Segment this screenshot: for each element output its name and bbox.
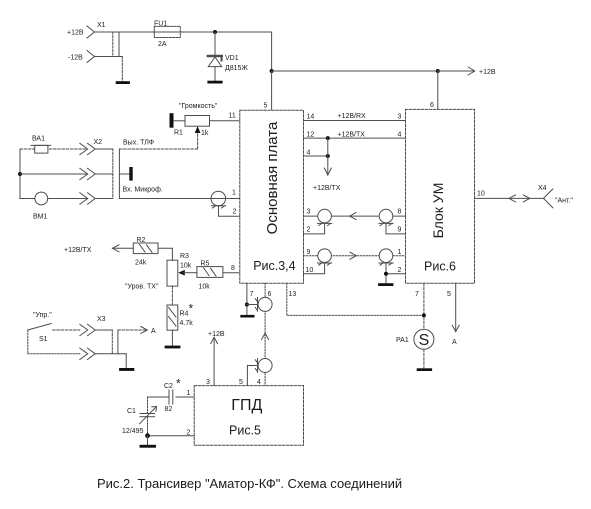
ground VD1: [207, 81, 222, 84]
svg-text:*: *: [176, 377, 181, 391]
svg-text:9: 9: [307, 249, 311, 256]
speaker BA1: [20, 136, 87, 154]
svg-text:12: 12: [307, 131, 315, 138]
wire coax shield to pin2: [219, 206, 240, 217]
svg-text:4: 4: [398, 131, 402, 138]
svg-text:+12В: +12В: [67, 30, 84, 37]
wire pin14 to pin3 +12V/RX: [304, 120, 406, 122]
wire pin6 drop: [437, 71, 439, 109]
wire TLF dashed to R1 wiper: [119, 148, 197, 150]
connector X1: [67, 22, 130, 84]
svg-text:2: 2: [187, 429, 191, 436]
wire R1 to pin 11: [210, 120, 240, 122]
double arrow: [509, 195, 516, 202]
arrow up: [262, 333, 269, 339]
svg-text:1: 1: [232, 190, 236, 197]
wire pin13: [287, 283, 424, 315]
wire pin12 to pin4 +12V/TX: [304, 137, 406, 139]
svg-text:5: 5: [264, 103, 268, 110]
wire shield row: [20, 173, 87, 175]
svg-text:6: 6: [430, 102, 434, 109]
X1 pin chevron -12V: [87, 51, 95, 63]
wire X3 to A arrow: [118, 329, 147, 331]
node C1: [145, 433, 150, 438]
svg-text:12/495: 12/495: [122, 428, 144, 435]
coax jack left lower: [304, 249, 332, 274]
connector X4: [538, 185, 573, 208]
coax jack left: [304, 209, 332, 234]
wire pin3 GPD +12V arrow: [213, 337, 215, 385]
arrow right: [350, 252, 356, 259]
svg-text:ВА1: ВА1: [32, 136, 45, 143]
svg-text:82: 82: [165, 406, 173, 413]
wire rail corner down: [271, 32, 273, 71]
wire pin7 main board: [246, 283, 248, 315]
ground pin7: [240, 315, 254, 318]
coax jack pin4 GPD: [247, 359, 272, 386]
svg-text:1: 1: [398, 249, 402, 256]
X2 chevrons mic row: [80, 193, 88, 204]
svg-text:Рис.3,4: Рис.3,4: [253, 259, 295, 273]
X2 chevrons TLF row: [80, 143, 88, 154]
wire pin3 to pin8 RX coax: [304, 215, 406, 217]
block PA unit: [406, 109, 475, 283]
wire R4 to ground: [171, 330, 173, 345]
wire S1 to X3: [53, 329, 80, 331]
svg-text:-12В: -12В: [68, 55, 83, 62]
ground PA1: [417, 368, 432, 371]
svg-text:"Уров. ТХ": "Уров. ТХ": [125, 284, 159, 291]
svg-text:3: 3: [398, 114, 402, 121]
svg-text:24k: 24k: [135, 260, 147, 267]
node pin4: [326, 154, 330, 158]
variable capacitor C1: [122, 407, 157, 436]
svg-text:9: 9: [398, 227, 402, 234]
capacitor C2: [148, 377, 195, 414]
svg-text:"Ант.": "Ант.": [555, 198, 573, 205]
wire pin2 GPD: [148, 435, 195, 437]
switch S1: [28, 312, 80, 354]
svg-text:5: 5: [447, 291, 451, 298]
node pin5 branch: [270, 69, 274, 73]
svg-text:+12В: +12В: [208, 331, 225, 338]
wire X3 ground drop: [125, 354, 127, 368]
svg-text:*: *: [189, 302, 194, 316]
svg-text:+12В/ТХ: +12В/ТХ: [313, 185, 341, 192]
svg-text:2: 2: [307, 227, 311, 234]
svg-text:Рис.2. Трансивер "Аматор-КФ".: Рис.2. Трансивер "Аматор-КФ". Схема соед…: [97, 476, 402, 491]
svg-text:"Упр.": "Упр.": [33, 312, 52, 319]
node pin6 branch: [436, 69, 440, 73]
svg-text:3: 3: [206, 379, 210, 386]
svg-text:2: 2: [398, 267, 402, 274]
wire pin5 PA unit arrow: [455, 283, 457, 331]
svg-text:Рис.6: Рис.6: [424, 260, 456, 274]
svg-text:1: 1: [187, 390, 191, 397]
svg-text:10k: 10k: [199, 284, 211, 291]
svg-text:S: S: [419, 332, 430, 349]
block main board: [240, 110, 304, 283]
ground X1: [116, 81, 130, 84]
svg-text:4: 4: [307, 149, 311, 156]
wire pin5 drop: [271, 71, 273, 110]
svg-text:Основная плата: Основная плата: [264, 121, 281, 234]
svg-text:Д815Ж: Д815Ж: [225, 65, 248, 72]
svg-text:R3: R3: [180, 253, 189, 260]
wire to ground: [147, 436, 149, 445]
svg-text:10: 10: [306, 267, 314, 274]
wire C2 corner down: [147, 397, 149, 414]
svg-text:+12В/ТХ: +12В/ТХ: [338, 131, 366, 138]
svg-text:X3: X3: [97, 316, 106, 323]
potentiometer R3: [167, 253, 197, 286]
node TX branch: [326, 136, 330, 140]
ground X3: [119, 368, 134, 371]
svg-text:7: 7: [250, 291, 254, 298]
block GPD: [194, 386, 303, 446]
wire left bus: [19, 149, 21, 199]
svg-text:8: 8: [398, 209, 402, 216]
wire pin4 stub: [304, 155, 328, 157]
svg-text:C2: C2: [164, 383, 173, 390]
svg-text:ВМ1: ВМ1: [33, 214, 48, 221]
connector X2: [80, 139, 163, 204]
shield terminal bar: [129, 167, 132, 181]
meter PA1: [396, 329, 434, 368]
node VD1 top: [213, 30, 217, 34]
svg-text:8: 8: [231, 265, 235, 272]
svg-text:7: 7: [415, 291, 419, 298]
svg-text:13: 13: [289, 291, 297, 298]
X1 pin chevron +12V: [87, 26, 95, 38]
zener diode VD1: [208, 32, 249, 81]
wire pin7 to coax shield: [247, 304, 258, 306]
svg-text:VD1: VD1: [225, 55, 239, 62]
wire shield stub: [119, 173, 129, 175]
svg-text:S1: S1: [39, 336, 48, 343]
svg-text:10: 10: [477, 191, 485, 198]
ground C1: [140, 445, 157, 448]
svg-text:ГПД: ГПД: [231, 397, 262, 414]
coax jack mic: [211, 190, 240, 217]
arrow left: [350, 213, 356, 220]
svg-text:Рис.5: Рис.5: [229, 424, 261, 438]
node BA1/BM1: [18, 172, 22, 176]
svg-text:+12В: +12В: [479, 69, 496, 76]
resistor R5: [197, 261, 223, 291]
svg-text:"Громкость": "Громкость": [179, 103, 218, 110]
wire +12V horizontal: [272, 70, 438, 72]
ground R4: [165, 346, 181, 349]
svg-text:+12В/ТХ: +12В/ТХ: [64, 247, 92, 254]
svg-text:X4: X4: [538, 185, 547, 192]
svg-text:2А: 2А: [158, 41, 167, 48]
X2 chevrons shield row: [80, 168, 88, 179]
resistor R2: [133, 237, 158, 267]
svg-text:Вых. ТЛФ: Вых. ТЛФ: [123, 139, 154, 146]
svg-text:X2: X2: [94, 139, 103, 146]
svg-text:4: 4: [257, 379, 261, 386]
svg-text:2: 2: [233, 209, 237, 216]
svg-text:14: 14: [307, 114, 315, 121]
svg-text:А: А: [151, 328, 156, 335]
resistor R4: [167, 302, 194, 331]
wire -12V row: [95, 56, 123, 58]
wire R1 wiper: [197, 131, 199, 149]
wire +12V/TX arrow: [113, 247, 134, 249]
X1 housing: [112, 32, 114, 57]
connector X3: [80, 316, 126, 360]
svg-text:11: 11: [229, 113, 236, 120]
wire coax shield to pin5: [247, 366, 257, 386]
coax jack right: [379, 209, 406, 234]
svg-text:6: 6: [268, 291, 272, 298]
svg-text:10k: 10k: [180, 263, 192, 270]
svg-text:R4: R4: [180, 311, 189, 318]
wire R2 to R3: [158, 248, 172, 260]
svg-text:4.7k: 4.7k: [180, 320, 194, 327]
svg-text:5: 5: [239, 379, 243, 386]
wire +12V rail: [95, 31, 155, 33]
fuse FU1: [154, 20, 180, 48]
wire R3 to R4: [171, 286, 173, 305]
svg-text:X1: X1: [97, 22, 106, 29]
coax jack right lower: [379, 249, 406, 283]
wire pin7 PA unit: [423, 283, 425, 329]
wire +12V arrow out: [438, 70, 475, 72]
svg-text:А: А: [452, 339, 457, 346]
wire pin9 to pin1 TX coax: [304, 255, 406, 257]
wire pin6 column: [264, 283, 266, 385]
wire pin10 to X4: [475, 197, 544, 199]
wire R5 to pin8: [223, 272, 240, 274]
coax jack pin6: [255, 297, 272, 311]
svg-text:R1: R1: [174, 130, 183, 137]
svg-text:+12В/RX: +12В/RX: [338, 113, 367, 120]
svg-text:PA1: PA1: [396, 337, 409, 344]
wire TX arrow down: [327, 138, 329, 174]
potentiometer R1: [170, 103, 240, 149]
svg-text:1k: 1k: [201, 130, 209, 137]
X2 housing: [112, 149, 114, 199]
svg-text:Блок УМ: Блок УМ: [430, 183, 446, 239]
svg-text:C1: C1: [127, 408, 136, 415]
wire X1 ground drop: [121, 57, 123, 82]
svg-text:3: 3: [307, 209, 311, 216]
svg-text:Вх. Микроф.: Вх. Микроф.: [123, 186, 163, 193]
microphone BM1: [20, 192, 87, 220]
wire mic row to board: [119, 198, 211, 200]
ground TX coax: [378, 283, 393, 286]
